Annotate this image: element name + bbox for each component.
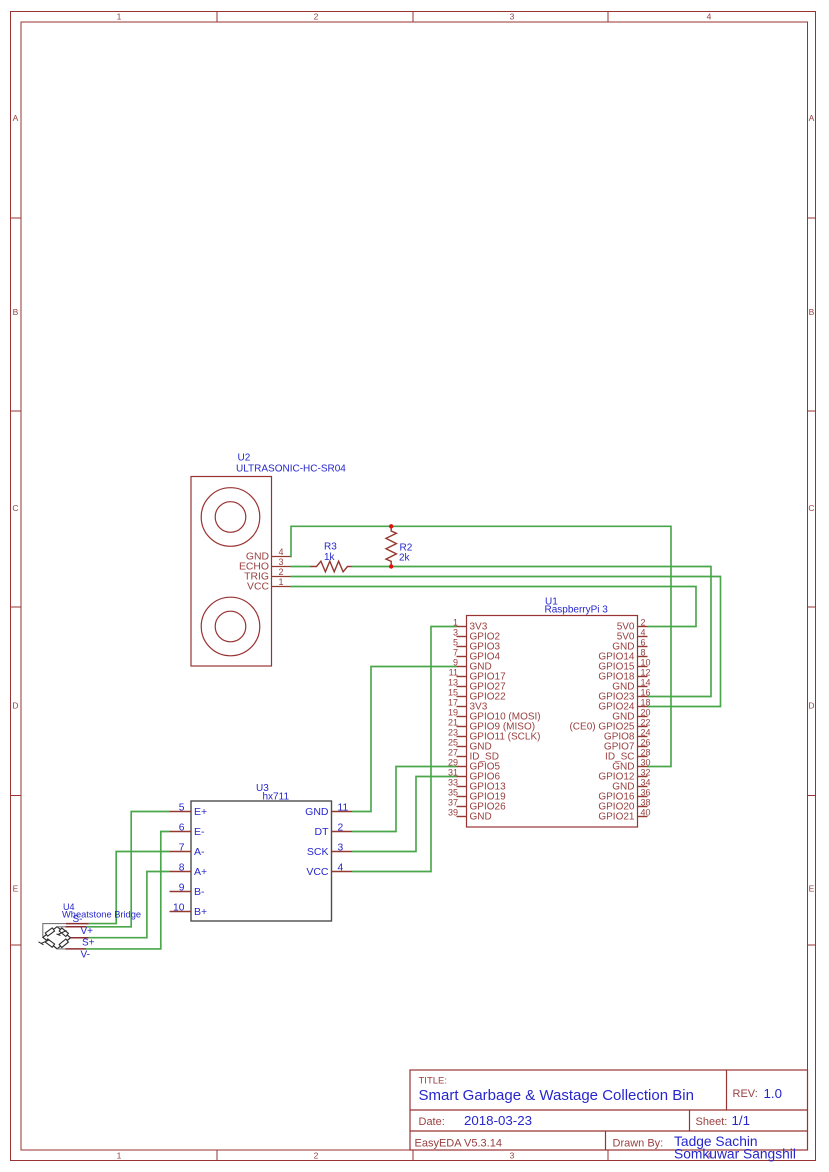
U1 pin 40 GPIO21 — [598, 807, 650, 822]
U2 body — [191, 477, 272, 667]
svg-text:4: 4 — [707, 12, 712, 22]
U1 pin 15 GPIO22 — [448, 687, 506, 702]
U4 resistor top-right — [59, 928, 68, 937]
U4 bridge diamond with resistors — [43, 927, 71, 949]
svg-text:B-: B- — [194, 886, 205, 898]
svg-text:Somkuwar Sangshil: Somkuwar Sangshil — [674, 1147, 796, 1162]
svg-text:U2: U2 — [238, 453, 251, 464]
svg-text:33: 33 — [448, 777, 458, 787]
resistor R2 — [386, 526, 396, 566]
U1 pin 28 ID_SC — [605, 747, 650, 762]
U1 pin 30 GND — [612, 757, 650, 772]
svg-text:1: 1 — [278, 577, 283, 587]
svg-text:2: 2 — [314, 12, 319, 22]
svg-text:SCK: SCK — [307, 846, 329, 858]
U4 resistor top-left — [45, 928, 54, 936]
svg-text:30: 30 — [641, 757, 651, 767]
border column labels — [117, 12, 712, 1161]
svg-text:15: 15 — [448, 687, 458, 697]
U1 pin 6 GND — [612, 637, 647, 652]
svg-text:D: D — [808, 701, 814, 711]
svg-text:25: 25 — [448, 737, 458, 747]
svg-text:5: 5 — [179, 803, 185, 814]
U1 pin 11 GPIO17 — [449, 667, 506, 682]
wire U3.VCC to U1 pin1 3V3 — [352, 627, 457, 872]
svg-text:19: 19 — [448, 707, 458, 717]
U1 pin 14 GND — [612, 677, 650, 692]
svg-text:Date:: Date: — [419, 1116, 445, 1128]
svg-text:21: 21 — [448, 717, 458, 727]
svg-text:2: 2 — [641, 617, 646, 627]
svg-text:3: 3 — [453, 627, 458, 637]
junction dot R2 top — [389, 524, 393, 528]
U1 pin 39 GND — [448, 807, 492, 822]
U1 pin 37 GPIO26 — [448, 797, 506, 812]
svg-text:A: A — [13, 113, 19, 123]
wire U2.TRIG to U1 pin18 GPIO24 — [291, 577, 721, 707]
svg-text:2018-03-23: 2018-03-23 — [464, 1113, 532, 1128]
svg-text:B: B — [13, 307, 19, 317]
svg-text:C: C — [12, 503, 18, 513]
svg-text:3: 3 — [338, 843, 344, 854]
U1 pin 8 GPIO14 — [598, 647, 647, 662]
svg-text:EasyEDA V5.3.14: EasyEDA V5.3.14 — [415, 1138, 502, 1150]
svg-text:11: 11 — [449, 667, 458, 677]
svg-text:VCC: VCC — [247, 582, 269, 593]
U1 pin 26 GPIO7 — [604, 737, 651, 752]
U1 pin 12 GPIO18 — [598, 667, 650, 682]
U3 pin 10 B+ — [170, 903, 208, 919]
svg-text:E+: E+ — [194, 806, 207, 818]
svg-text:7: 7 — [453, 647, 458, 657]
svg-text:VCC: VCC — [306, 866, 329, 878]
svg-text:10: 10 — [641, 657, 651, 667]
U1 pin 33 GPIO13 — [448, 777, 506, 792]
U4 gauge arrow bottom-left — [39, 940, 50, 945]
svg-text:E-: E- — [194, 826, 205, 838]
U3 pin 2 DT — [315, 823, 353, 839]
svg-text:1: 1 — [117, 1151, 122, 1161]
svg-text:E: E — [13, 884, 19, 894]
U1 body — [467, 616, 638, 828]
svg-text:4: 4 — [641, 627, 646, 637]
title block red labels — [415, 1076, 758, 1150]
U3 pin 7 A- — [170, 843, 206, 859]
U1 pin 36 GPIO16 — [598, 787, 650, 802]
svg-text:A: A — [809, 113, 815, 123]
U1 pin 21 GPIO9 (MISO) — [448, 717, 535, 732]
svg-text:2: 2 — [314, 1151, 319, 1161]
U3 pin 3 SCK — [307, 843, 352, 859]
svg-text:17: 17 — [448, 697, 458, 707]
svg-text:Drawn By:: Drawn By: — [613, 1138, 664, 1150]
svg-text:24: 24 — [641, 727, 651, 737]
svg-text:A+: A+ — [194, 866, 207, 878]
svg-text:20: 20 — [641, 707, 651, 717]
wire R3 right to U1 pin16 GPIO23 — [352, 567, 712, 697]
svg-text:3: 3 — [278, 557, 283, 567]
wire U4.V+ to U3.E+ — [86, 812, 170, 927]
U4 pin V- stub — [66, 948, 87, 950]
svg-text:12: 12 — [641, 667, 651, 677]
svg-text:23: 23 — [448, 727, 458, 737]
svg-text:RaspberryPi 3: RaspberryPi 3 — [545, 604, 609, 615]
border row labels — [12, 113, 814, 894]
U1 pin 29 GPIO5 — [448, 757, 501, 772]
wire U2.GND to U1 pin30 GND — [291, 526, 672, 766]
U4 bracket pin1 route — [43, 924, 66, 937]
svg-text:D: D — [12, 701, 18, 711]
svg-text:36: 36 — [641, 787, 651, 797]
wire U3.SCK to U1 pin31 GPIO6 — [352, 777, 457, 852]
U3 pin 8 A+ — [170, 863, 208, 879]
svg-text:4: 4 — [278, 547, 283, 557]
resistor R3 — [311, 561, 352, 572]
U3 pin 4 VCC — [306, 863, 352, 879]
svg-text:B+: B+ — [194, 906, 207, 918]
U1 pin 23 GPIO11 (SCLK) — [448, 727, 540, 742]
U1 pin 5 GPIO3 — [453, 637, 501, 652]
svg-text:8: 8 — [179, 863, 185, 874]
svg-text:22: 22 — [641, 717, 651, 727]
svg-text:34: 34 — [641, 777, 651, 787]
svg-text:27: 27 — [448, 747, 458, 757]
U1 pin 24 GPIO8 — [604, 727, 651, 742]
svg-text:GND: GND — [305, 806, 329, 818]
U3 pin 6 E- — [170, 823, 206, 839]
U3 pin 5 E+ — [170, 803, 208, 819]
svg-text:S+: S+ — [82, 938, 95, 949]
svg-text:13: 13 — [448, 677, 458, 687]
svg-text:35: 35 — [448, 787, 458, 797]
svg-text:1: 1 — [117, 12, 122, 22]
U4 resistor bottom-right — [59, 939, 68, 948]
U2 pin 1 VCC — [247, 577, 290, 593]
svg-text:E: E — [809, 884, 815, 894]
title block frame — [410, 1070, 808, 1150]
U1 pin 1 3V3 — [453, 617, 488, 632]
U2 pin 2 TRIG — [244, 567, 290, 583]
svg-text:40: 40 — [641, 807, 651, 817]
U3 pin 9 B- — [170, 883, 206, 899]
U1 pin 9 GND — [453, 657, 492, 672]
U1 pin 4 5V0 — [617, 627, 648, 642]
U1 pin 32 GPIO12 — [598, 767, 650, 782]
U2 transducer circle top — [201, 488, 260, 547]
svg-text:37: 37 — [448, 797, 458, 807]
svg-text:V+: V+ — [81, 926, 94, 937]
wire U2.VCC to U1 pin2 5V0 — [291, 587, 697, 627]
wire U3.GND to U1 pin9 GND — [352, 667, 457, 812]
svg-text:2: 2 — [338, 823, 344, 834]
U4 gauge arrow top-right — [57, 931, 67, 936]
svg-text:TITLE:: TITLE: — [419, 1076, 448, 1087]
U1 pin 3 GPIO2 — [453, 627, 501, 642]
svg-text:GND: GND — [470, 812, 492, 823]
U1 pin 20 GND — [612, 707, 650, 722]
U1 pin 19 GPIO10 (MOSI) — [448, 707, 541, 722]
svg-text:V-: V- — [81, 950, 90, 961]
svg-text:S-: S- — [73, 914, 83, 925]
svg-text:14: 14 — [641, 677, 651, 687]
U4 pin V+ stub — [66, 926, 87, 928]
U3 pin 11 GND — [305, 803, 352, 819]
svg-text:1k: 1k — [324, 552, 336, 563]
svg-text:C: C — [808, 503, 814, 513]
U1 pin 27 ID_SD — [448, 747, 499, 762]
U1 pin 22 (CE0) GPIO25 — [569, 717, 650, 732]
svg-text:ULTRASONIC-HC-SR04: ULTRASONIC-HC-SR04 — [236, 464, 346, 475]
wire U2.ECHO to R3 left — [291, 566, 312, 568]
svg-text:8: 8 — [641, 647, 646, 657]
svg-text:5: 5 — [453, 637, 458, 647]
U2 pin 3 ECHO — [239, 557, 291, 573]
U1 pin 34 GND — [612, 777, 650, 792]
border column ticks — [217, 12, 608, 1161]
svg-text:1.0: 1.0 — [764, 1086, 783, 1101]
svg-text:2: 2 — [278, 567, 283, 577]
svg-text:6: 6 — [179, 823, 185, 834]
wire U4.S- to U3.A- — [89, 852, 170, 924]
U1 pin 17 3V3 — [448, 697, 488, 712]
svg-text:39: 39 — [448, 807, 458, 817]
svg-text:2k: 2k — [399, 553, 411, 564]
U2 transducer circle bottom — [201, 597, 260, 656]
svg-text:3: 3 — [510, 1151, 515, 1161]
U4 pin leads gray — [57, 927, 65, 949]
svg-text:1/1: 1/1 — [732, 1113, 751, 1128]
U1 pin 16 GPIO23 — [598, 687, 650, 702]
svg-text:R3: R3 — [324, 542, 337, 553]
U1 pin 25 GND — [448, 737, 492, 752]
U1 pin 31 GPIO6 — [448, 767, 501, 782]
U1 pin 13 GPIO27 — [448, 677, 506, 692]
svg-text:10: 10 — [173, 903, 185, 914]
svg-text:7: 7 — [179, 843, 185, 854]
svg-text:16: 16 — [641, 687, 651, 697]
svg-text:Sheet:: Sheet: — [696, 1116, 728, 1128]
U4 pin S+ stub — [71, 937, 89, 939]
svg-text:11: 11 — [338, 803, 349, 814]
svg-text:18: 18 — [641, 697, 651, 707]
U3 body — [191, 801, 332, 921]
junction dot R2 bottom — [389, 564, 393, 568]
svg-text:DT: DT — [315, 826, 330, 838]
border row ticks — [11, 218, 816, 945]
U1 pin 2 5V0 — [617, 617, 648, 632]
U4 pin S- stub — [66, 923, 89, 925]
U1 pin 7 GPIO4 — [453, 647, 501, 662]
svg-text:6: 6 — [641, 637, 646, 647]
svg-text:38: 38 — [641, 797, 651, 807]
U1 pin 38 GPIO20 — [598, 797, 650, 812]
U1 pin 35 GPIO19 — [448, 787, 506, 802]
wire U3.DT to U1 pin29 GPIO5 — [352, 767, 457, 832]
svg-text:GPIO21: GPIO21 — [598, 812, 635, 823]
svg-text:4: 4 — [338, 863, 344, 874]
svg-text:32: 32 — [641, 767, 651, 777]
wire U4.S+ to U3.A+ — [89, 872, 170, 938]
svg-text:B: B — [809, 307, 815, 317]
U2 pin 4 GND — [246, 547, 291, 563]
svg-text:REV:: REV: — [733, 1088, 758, 1100]
U1 pin 10 GPIO15 — [598, 657, 650, 672]
svg-text:28: 28 — [641, 747, 651, 757]
svg-text:3: 3 — [510, 12, 515, 22]
svg-text:Smart Garbage & Wastage Collec: Smart Garbage & Wastage Collection Bin — [419, 1087, 694, 1104]
svg-text:A-: A- — [194, 846, 205, 858]
U4 resistor bottom-left — [45, 939, 54, 947]
svg-text:26: 26 — [641, 737, 651, 747]
svg-text:9: 9 — [179, 883, 185, 894]
U1 pin 18 GPIO24 — [598, 697, 650, 712]
wire U4.V- to U3.E- — [86, 832, 170, 949]
